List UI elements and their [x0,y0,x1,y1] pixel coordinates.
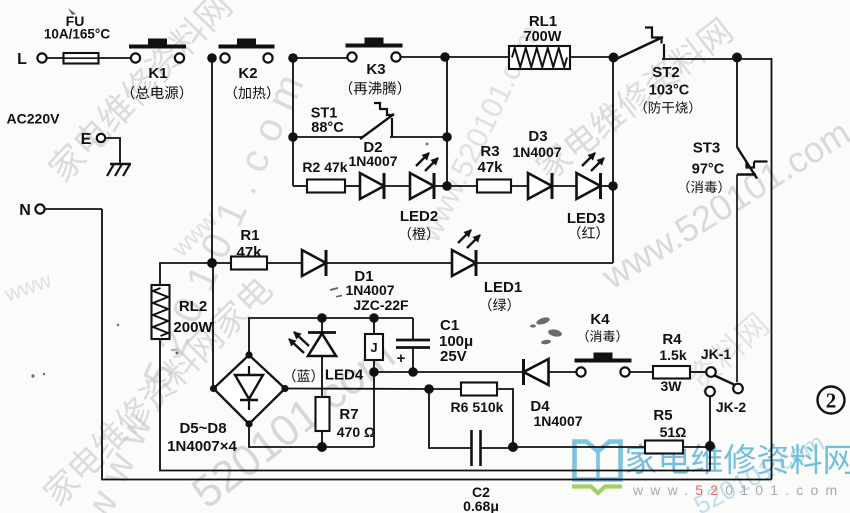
diode D2 1N4007 [360,173,384,199]
svg-text:ST3: ST3 [693,140,721,157]
number 2 in circle [818,387,845,414]
wire led4-r7 [321,356,323,397]
svg-text:N: N [19,202,31,219]
node H st1-left [288,132,298,142]
svg-text:D5~D8: D5~D8 [179,420,226,437]
node C k3-right [440,52,450,62]
resistor RL2 200W [152,285,170,339]
wire r5-node [683,446,710,448]
svg-text:R7: R7 [339,406,358,423]
wire mid vertical 613 [612,57,614,263]
svg-text:1N4007: 1N4007 [533,413,582,429]
wire led1-corner [476,262,613,264]
wire node-inner rail [709,447,711,471]
node Q c2-right [508,442,518,452]
resistor R3 47k [477,180,511,193]
wire r3-d3 [511,185,529,187]
svg-text:LED3: LED3 [567,210,605,227]
svg-text:K3: K3 [366,61,385,78]
svg-text:700W: 700W [524,29,562,45]
resistor R2 47k [307,180,345,193]
resistor R7 470 [316,397,330,431]
wire k-branch down [211,58,213,263]
wire j-down [373,372,375,447]
wire bridge top [249,318,413,355]
svg-text:JK-1: JK-1 [701,346,732,362]
node A k1-k2 [207,53,217,63]
node F st1-right [442,132,452,142]
diode D1 1N4007 [302,250,326,276]
svg-text:470 Ω: 470 Ω [337,424,375,440]
switch K2 (heat) [220,53,229,62]
node N c1-bottom [408,367,418,377]
svg-text:1N4007: 1N4007 [345,282,394,298]
wire rl2 bottom [160,339,710,471]
wire led2-node [434,185,447,187]
terminal E [97,134,105,142]
wire right edge [771,58,773,480]
wire bridge bottom [249,424,374,447]
wire L-row top [47,57,132,59]
wire d1-led1 [326,262,452,264]
svg-text:47k: 47k [236,244,262,261]
node B k2-k3 [288,53,298,63]
wire r2-d2 [345,185,360,187]
capacitor C2 0.68u [470,430,473,466]
svg-text:E: E [81,131,92,148]
svg-text:R2 47k: R2 47k [302,159,347,175]
contact JK-1 [706,367,716,377]
wire c2-r5 [513,446,645,448]
wire relay bottom rail [374,371,523,373]
wire st3 upper [736,59,738,147]
svg-text:LED4: LED4 [325,367,364,384]
LED LED3 red [577,173,601,199]
thermostat ST3 97C [737,147,757,179]
svg-text:R5: R5 [653,407,672,424]
node I led3-right [608,181,618,191]
wire r6 lead [429,388,461,390]
wire node-r3 [447,185,477,187]
node O r5-right [705,441,715,451]
svg-text:AC220V: AC220V [7,111,61,127]
svg-text:RL1: RL1 [529,13,557,30]
wire r1-d1 [267,262,302,264]
svg-text:200W: 200W [173,319,213,336]
svg-text:ST2: ST2 [652,64,680,81]
wire st2-corner [737,58,772,60]
wire rl1-st2 [570,56,616,58]
wire N rail [102,209,772,480]
svg-text:1N4007: 1N4007 [512,144,561,160]
resistor R4 1.5k 3W [653,366,690,379]
node K led4-top [317,313,327,323]
LED LED1 green [452,250,476,276]
node L j-top [369,313,379,323]
wire c2 left [429,389,471,448]
svg-text:1.5k: 1.5k [659,347,686,363]
wire k2k3 branch vertical [292,58,294,186]
wire k2-k3 [293,57,347,59]
svg-text:R6 510k: R6 510k [451,399,504,415]
svg-text:D3: D3 [528,128,547,145]
svg-text:3W: 3W [661,378,683,394]
terminal L [37,53,46,62]
node D st2-left [609,53,619,63]
wire st1 row [293,136,362,138]
relay coil J JZC-22F [373,318,375,334]
terminal N [35,204,44,213]
switch K3 (reboil) [347,52,356,61]
svg-text:1N4007×4: 1N4007×4 [167,438,237,455]
wire r2 lead [293,185,307,187]
wire d4-k4 [549,371,577,373]
thermostat ST1 88C [360,114,394,139]
bridge rectifier D5-D8 [214,355,286,424]
svg-text:JZC-22F: JZC-22F [353,297,409,313]
svg-text:www.520101.com: www.520101.com [632,482,844,498]
svg-text:51Ω: 51Ω [660,424,687,440]
svg-text:25V: 25V [440,348,467,365]
wire k4-r4 [630,371,653,373]
watermark site name blue [627,444,850,475]
node J r1-junction [207,258,217,268]
LED LED4 blue [321,318,323,333]
fuse FU 10A/165C [64,53,99,64]
svg-text:J: J [370,340,377,355]
resistor R5 51ohm [645,441,683,454]
wire st2-right [662,58,737,60]
wire rl2 top lead [160,263,212,285]
watermark logo book icon [575,442,621,480]
svg-text:97°C: 97°C [692,162,725,178]
wire r6-corner [497,389,513,447]
svg-text:C1: C1 [440,317,459,334]
capacitor C1 100u 25V [412,318,414,339]
svg-text:RL2: RL2 [179,298,207,315]
wire d2-led2 [384,185,410,187]
resistor RL1 700W [509,46,570,69]
diode D4 1N4007 [524,359,549,385]
wire d3-led3 [551,185,577,187]
svg-text:+: + [397,350,406,367]
diode D3 1N4007 [528,173,552,199]
contact JK-2 [705,387,715,397]
svg-text:LED1: LED1 [484,279,522,296]
svg-text:1N4007: 1N4007 [348,153,397,169]
ground [110,163,131,165]
contact JK common blade [715,376,735,385]
svg-text:K1: K1 [148,65,167,82]
svg-text:R1: R1 [240,227,259,244]
svg-text:JK-2: JK-2 [716,399,747,415]
svg-text:LED2: LED2 [400,208,438,225]
svg-text:10A/165°C: 10A/165°C [44,27,110,42]
scan noise marks [31,8,562,378]
svg-text:0.68μ: 0.68μ [463,498,499,513]
svg-text:88°C: 88°C [311,120,344,136]
thermostat ST2 103C [615,37,663,60]
svg-text:47k: 47k [477,159,503,176]
switch K1 (main power) [131,53,140,62]
LED LED2 orange [410,173,434,199]
svg-text:R3: R3 [480,143,499,160]
svg-text:L: L [17,51,27,68]
node P r6-left [424,384,434,394]
resistor R1 47k [231,257,267,270]
svg-text:2: 2 [826,389,837,413]
svg-text:K4: K4 [590,311,610,328]
svg-text:R4: R4 [662,331,682,348]
wire r1 row [212,262,231,264]
wire K-branch vertical [446,57,448,186]
switch K4 (disinfect) [576,367,585,376]
resistor R6 510k [461,383,497,396]
wire r6 row [285,388,429,391]
svg-text:K2: K2 [238,65,257,82]
node M j-bottom [369,367,379,377]
wire k3-rl1 [400,56,509,58]
wire bridge-left vertical [212,263,214,385]
node R r7-bottom [317,442,327,452]
wire r4-jk1 [690,371,706,373]
wire led3-node [600,185,613,187]
node E st3-top [732,53,742,63]
node G led2-right-col [442,181,452,191]
svg-text:103°C: 103°C [649,83,690,99]
